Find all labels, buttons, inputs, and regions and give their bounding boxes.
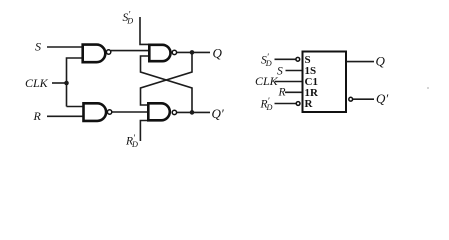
svg-text:Q: Q (376, 54, 386, 69)
svg-text:R: R (305, 98, 314, 110)
svg-text:S: S (277, 66, 283, 78)
svg-text:R: R (33, 109, 42, 123)
svg-text:CLK: CLK (25, 76, 49, 90)
svg-text:S: S (35, 40, 41, 54)
svg-text:R: R (278, 87, 286, 99)
svg-text:Q′: Q′ (376, 91, 388, 106)
svg-text:Q′: Q′ (212, 106, 224, 121)
svg-text:CLK: CLK (255, 74, 279, 88)
svg-text:Q: Q (213, 46, 223, 61)
